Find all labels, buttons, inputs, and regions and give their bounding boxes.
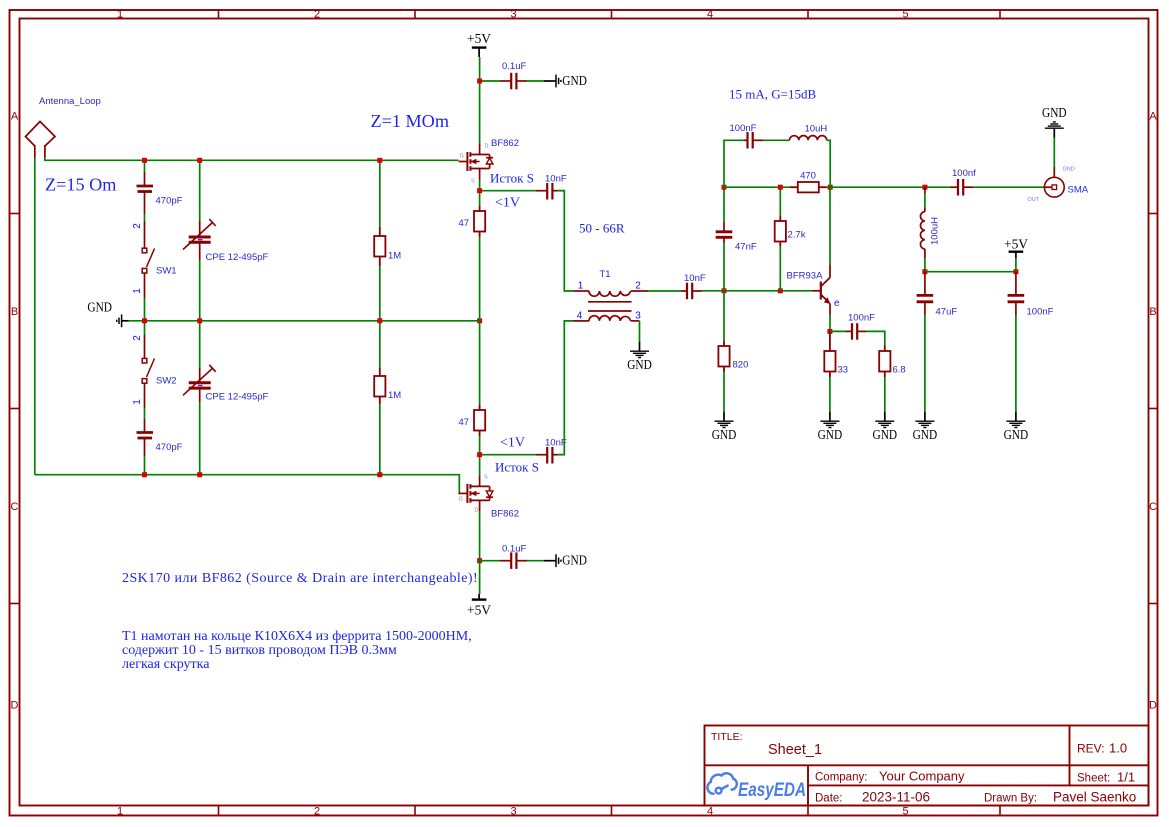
+5V stub top [478,48,480,57]
node junction 830 top [828,185,833,190]
svg-text:GND: GND [627,358,652,373]
svg-text:Sheet:: Sheet: [1077,773,1110,785]
svg-text:2: 2 [132,335,143,341]
svg-text:GND: GND [913,428,938,443]
ground stub 100nF right [1015,412,1017,422]
svg-text:4: 4 [577,310,583,321]
switch SW1 [142,221,154,298]
ground symbol under 33 [820,421,839,427]
inductor L1 10uH [790,136,827,141]
wire drain node to +5V bottom [479,561,481,594]
transformer T1 core [588,302,632,311]
ground stub SMA [1053,128,1055,138]
wire 100nF to ground [1015,315,1017,412]
wire CPE1 top lead [199,160,201,221]
svg-text:G: G [460,154,464,160]
svg-text:GND: GND [818,428,843,443]
wire top net from antenna to upper FET gate [45,158,459,161]
svg-text:820: 820 [733,360,749,371]
capacitor C3 0.1uF [500,73,527,90]
node junction emitter [827,329,832,334]
wire CPE2 to bottom net [199,402,201,475]
node junction 925 +5V row [922,269,927,274]
wire drain node down to FET Q1 [479,81,481,144]
capacitor C6 0.1uF [500,552,527,569]
ground symbol above SMA inverted [1045,122,1064,128]
svg-text:<1V: <1V [495,196,520,211]
wire C11 to 6.8 [866,331,885,345]
+5V bar bottom [472,598,487,600]
connector SMA [1044,167,1064,197]
ground stub black [122,320,129,322]
svg-text:C: C [1149,501,1157,513]
svg-text:REV:: REV: [1077,742,1105,756]
svg-text:1: 1 [132,288,143,294]
+5V stub right [1015,252,1017,258]
svg-text:Sheet_1: Sheet_1 [768,742,822,758]
+5V stub bottom [478,594,480,600]
capacitor C11 100nF emitter [846,323,866,340]
CPE2 blue mark [198,385,203,387]
node junctions bottom net [142,472,382,477]
svg-text:Т1 намотан на кольце К10Х6Х4 и: Т1 намотан на кольце К10Х6Х4 из феррита … [122,629,472,644]
svg-text:47uF: 47uF [936,307,958,318]
svg-text:Z=1 MOm: Z=1 MOm [371,111,449,131]
svg-text:2: 2 [314,9,320,21]
title block vertical rev column [1069,726,1071,786]
svg-text:GND: GND [562,74,587,89]
variable capacitor CPE1 12-495pF [183,219,216,260]
capacitor C12 47uF [917,272,934,315]
svg-text:SMA: SMA [1068,185,1089,196]
svg-text:10nF: 10nF [545,173,567,184]
inductor L2 100uH vertical [920,187,924,258]
wire SW2 upper lead [144,321,146,335]
wire node to cap C6 [480,560,500,562]
wire R2 bottom lead [379,404,381,475]
frame row labels left [11,111,19,712]
wire 820 to ground [723,372,725,412]
wire 470 to collector node [827,186,831,188]
svg-text:A: A [1149,111,1157,123]
wire C2 to bottom net [144,456,146,475]
svg-text:4: 4 [707,806,713,818]
svg-text:+5V: +5V [1004,238,1028,253]
wire 33 to ground [829,377,831,412]
svg-text:Z=15 Om: Z=15 Om [45,175,116,195]
svg-text:6.8: 6.8 [893,365,906,376]
svg-text:2: 2 [635,281,641,292]
svg-text:Исток S: Исток S [495,460,539,475]
T1 pin numbers [577,281,642,322]
svg-text:1: 1 [578,281,584,292]
svg-text:2023-11-06: 2023-11-06 [862,790,930,805]
ground symbol under 6.8 [875,421,894,427]
wire 2.7k bottom lead [779,246,781,291]
capacitor C8 47nF [716,222,733,243]
svg-text:Drawn By:: Drawn By: [984,793,1037,805]
wire cap C1 to SW1 [144,214,146,221]
wire Q1 source to node [479,180,481,191]
svg-text:SW2: SW2 [156,376,177,387]
svg-text:SW1: SW1 [156,266,177,277]
wire C9 to L1 [763,139,790,141]
transistor Q2 BF862 lower mirrored [459,475,494,511]
wire CPE1 to GND net [199,260,201,321]
wire 47uF to ground [924,315,926,412]
wire 2.7k top lead [779,187,781,216]
svg-text:100nf: 100nf [952,168,976,179]
svg-text:0.1uF: 0.1uF [502,544,526,555]
svg-text:1M: 1M [388,251,401,262]
wire C6 to GND port [527,560,544,562]
svg-text:50 - 66R: 50 - 66R [579,221,625,236]
wire L1 to collector node [827,140,831,187]
frame row labels right [1149,111,1157,712]
capacitor C2 470pF [137,419,154,456]
resistor R7 820 [718,341,729,372]
svg-text:<1V: <1V [500,436,525,451]
transformer T1 primary winding [574,291,649,296]
svg-text:2: 2 [132,223,143,229]
svg-text:1/1: 1/1 [1117,770,1135,785]
resistor R8 33 [824,331,835,377]
wire emitter to node [829,315,831,331]
title block line under company row [808,784,1149,786]
frame column labels top [117,9,909,21]
wire T1 pin3 to ground [639,321,641,342]
tiny pin letters Q1 [460,144,489,185]
node junction source upper [477,188,482,193]
node junctions GND net [142,318,482,323]
capacitor C10 100nf output [950,179,973,196]
wire 6.8 to ground [884,377,886,412]
svg-text:Your Company: Your Company [879,769,965,784]
svg-text:D: D [1149,700,1157,712]
svg-text:33: 33 [838,365,849,376]
svg-text:B: B [1149,306,1156,318]
node junction drain bottom [477,558,482,563]
variable capacitor CPE2 12-495pF [183,365,216,402]
resistor R3 47 upper [474,206,485,237]
frame row ticks right [1149,214,1158,604]
wire CPE2 top lead [199,321,201,368]
svg-text:10nF: 10nF [684,273,706,284]
svg-text:1.0: 1.0 [1109,741,1127,756]
wire 1M R1 top lead [379,160,381,227]
transistor Q1 BF862 upper [459,144,494,180]
frame row ticks left [10,214,20,604]
svg-text:100nF: 100nF [1027,307,1054,318]
svg-text:S: S [484,475,488,481]
svg-text:GND: GND [873,428,898,443]
ground symbol under 820 [715,421,734,427]
title block outline [705,726,1149,806]
wire +5V to node right [1015,258,1017,272]
svg-text:G: G [459,497,463,503]
node junction 1016 +5V row [1013,269,1018,274]
svg-text:GND: GND [1063,167,1075,173]
svg-text:D: D [485,144,489,150]
node junction 780 top [778,185,783,190]
wire T1 pin2 to cap C7 [648,290,681,292]
wire R3 to GND net [479,237,481,321]
wire to cap C3 [480,80,500,82]
svg-text:Pavel Saenko: Pavel Saenko [1053,790,1136,805]
transformer T1 secondary winding [574,316,640,321]
svg-text:47nF: 47nF [735,242,757,253]
wire bottom net to lower FET gate [35,475,460,494]
svg-text:Company:: Company: [815,772,867,784]
ground symbol under T1 [630,351,649,357]
svg-text:470pF: 470pF [156,196,183,207]
wire source node to R3 [479,191,481,206]
svg-text:1M: 1M [388,390,401,401]
resistor R2 1M [374,368,385,404]
resistor R4 47 lower [474,405,485,436]
svg-text:D: D [475,508,479,514]
svg-text:10uH: 10uH [805,124,828,135]
wire +5V row [925,271,1016,273]
wire middle GND net [128,320,480,322]
wire 820 top lead [723,291,725,341]
node junction 724 top [722,185,727,190]
svg-text:470: 470 [800,171,816,182]
logo EasyEDA cloud [707,773,736,793]
frame column ticks top [219,10,1001,19]
wire L2 to +5V node [924,258,926,272]
ground symbol right-pointing bottom [556,554,561,567]
svg-text:2: 2 [314,806,320,818]
svg-text:3: 3 [635,310,641,321]
resistor R6 470 horizontal [790,182,827,192]
wire C5 to T1 pin4 [557,321,574,455]
wire Q2 source up to node [479,455,481,476]
svg-text:T1: T1 [599,269,610,280]
svg-text:1: 1 [132,399,143,405]
node junction base net 780 [778,288,783,293]
capacitor C5 10nF [536,447,564,464]
resistor R9 6.8 [879,345,890,377]
ground symbol right-pointing top [556,75,561,88]
svg-text:4: 4 [707,9,713,21]
transistor Q3 BFR93A [812,265,831,315]
capacitor C4 10nF [536,183,564,200]
node junction output 925 [922,185,927,190]
svg-text:BF862: BF862 [491,509,519,520]
resistor R1 1M [374,227,385,266]
svg-text:GND: GND [712,428,737,443]
wire GND net to R4 [479,321,481,405]
+5V bar top [472,46,487,48]
svg-text:15 mA, G=15dB: 15 mA, G=15dB [729,87,816,102]
+5V bar right [1009,250,1024,252]
svg-text:GND: GND [562,554,587,569]
capacitor C7 10nF [681,283,702,300]
capacitor C9 100nF loop [744,132,763,149]
svg-text:содержит 10 - 15 витков провод: содержит 10 - 15 витков проводом ПЭВ 0.3… [122,643,397,658]
ground stub T1 [639,342,641,352]
wire emitter node to cap C11 [830,330,846,332]
wire left vertical from antenna to bottom net [34,158,36,475]
svg-text:CPE 12-495pF: CPE 12-495pF [206,252,269,263]
svg-text:BF862: BF862 [491,138,519,149]
wire top loop left [724,140,744,187]
svg-text:GND: GND [1004,428,1029,443]
svg-text:OUT: OUT [1028,197,1040,203]
svg-text:3: 3 [510,806,516,818]
svg-text:e: e [834,298,840,309]
wire C4 to T1 pin1 [557,191,574,291]
svg-text:BFR93A: BFR93A [787,271,824,282]
wire feedback node row [724,186,790,188]
svg-text:легкая скрутка: легкая скрутка [122,657,210,672]
ground symbol under 100nF right [1006,421,1025,427]
wire SW1 to GND net [144,298,146,321]
svg-text:A: A [11,111,19,123]
svg-text:470pF: 470pF [156,442,183,453]
node junction source lower [477,452,482,457]
svg-text:1: 1 [117,806,123,818]
wire C10 to SMA [973,186,1044,188]
wire R1 bottom lead [379,266,381,321]
ground stub 6.8 [884,412,886,422]
title block vertical logo cell [807,765,809,805]
svg-text:47: 47 [459,417,470,428]
svg-text:Antenna_Loop: Antenna_Loop [39,96,101,107]
wire base net [702,290,812,292]
ground symbol left-pointing [117,314,122,327]
ground stub 820 [723,412,725,422]
svg-text:47: 47 [459,218,470,229]
node junction base net 724 [722,288,727,293]
node junction drain top [477,79,482,84]
wire collector to output node [829,187,831,265]
GND stub black top [544,80,556,82]
svg-text:1: 1 [117,9,123,21]
svg-text:2SK170 или BF862 (Source & Dra: 2SK170 или BF862 (Source & Drain are int… [122,571,478,586]
wire +5V to drain node [479,57,481,81]
svg-text:2.7k: 2.7k [788,230,806,241]
frame column ticks bottom [219,806,1001,816]
antenna leg stubs [34,145,36,158]
wire C3 to GND port [527,80,544,82]
svg-text:B: B [11,306,18,318]
svg-text:EasyEDA: EasyEDA [738,780,806,801]
svg-text:Исток S: Исток S [490,171,534,186]
ground stub 33 [829,412,831,422]
svg-text:TITLE:: TITLE: [711,731,743,743]
frame column labels bottom [117,806,909,818]
wire 1M R2 top lead [379,321,381,368]
svg-text:100uH: 100uH [930,217,941,245]
wire 47nF to top node [723,187,725,222]
wire source node to cap C4 [480,190,536,192]
node junctions top net [142,158,382,163]
svg-text:100nF: 100nF [848,313,875,324]
svg-text:CPE 12-495pF: CPE 12-495pF [206,392,269,403]
svg-text:+5V: +5V [467,604,491,619]
svg-text:5: 5 [902,806,908,818]
capacitor C13 100nF right [1008,272,1025,315]
svg-text:GND: GND [1042,106,1067,121]
GND stub black bottom [544,560,556,562]
ground stub 47uF [924,412,926,422]
tiny pin letters Q2 [459,475,489,514]
svg-text:+5V: +5V [467,32,491,47]
svg-text:C: C [11,501,19,513]
title block line under title row [705,764,1149,766]
svg-text:S: S [471,179,475,185]
wire Q2 drain down [479,511,481,560]
capacitor C1 470pF [137,172,154,214]
wire 47nF lower lead [723,243,725,291]
svg-text:D: D [11,700,19,712]
wire output line [830,186,950,188]
CPE1 blue mark [198,239,203,241]
resistor R5 2.7k [775,216,786,246]
svg-text:5: 5 [902,9,908,21]
svg-text:100nF: 100nF [730,123,757,134]
svg-text:Date:: Date: [815,793,843,805]
switch SW2 [142,335,154,408]
wire R4 to source node lower [479,436,481,455]
wire cap C1 top lead [144,160,146,172]
ground symbol under 47uF [915,421,934,427]
wire source node to cap C5 [480,454,536,456]
antenna ANT1 Antenna_Loop symbol [26,122,56,147]
svg-text:GND: GND [87,300,112,315]
wire SMA to ground top [1053,138,1055,167]
svg-text:0.1uF: 0.1uF [502,61,526,72]
svg-text:3: 3 [510,9,516,21]
wire SW2 to cap C2 [144,408,146,419]
